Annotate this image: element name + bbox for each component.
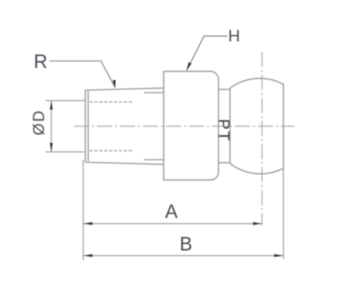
centerline horizontal axis bbox=[74, 125, 295, 127]
thread end face chamfer line bbox=[87, 91, 89, 161]
extension line left of thread bbox=[82, 160, 84, 260]
thread root dashed top line bbox=[90, 101, 134, 103]
arrowhead leader H bbox=[186, 62, 191, 71]
ball head outline bbox=[230, 78, 284, 173]
svg-text:ØD: ØD bbox=[31, 109, 48, 135]
svg-text:PT: PT bbox=[215, 119, 232, 143]
thread root dashed bottom line bbox=[90, 150, 134, 152]
dimension OD extension line top bbox=[46, 100, 86, 102]
arrowhead B right bbox=[274, 254, 283, 257]
arrowhead B left bbox=[84, 254, 93, 257]
arrowhead OD down bbox=[50, 143, 53, 152]
arrowhead A right bbox=[253, 222, 262, 225]
arrowhead A left bbox=[84, 222, 93, 225]
thread crest bottom line bbox=[85, 162, 163, 164]
centerline vertical ball axis bbox=[261, 52, 263, 225]
hex body outline bbox=[164, 71, 219, 180]
arrowhead leader R bbox=[113, 80, 116, 89]
thread runout top line bbox=[144, 92, 164, 94]
arrowhead OD up bbox=[50, 101, 53, 110]
leader line H bbox=[187, 36, 228, 70]
dimension A line bbox=[83, 223, 262, 225]
neck shoulder bottom line bbox=[219, 162, 231, 164]
svg-text:B: B bbox=[180, 234, 193, 255]
thread runout bottom line bbox=[144, 159, 164, 161]
svg-text:H: H bbox=[228, 27, 240, 45]
thread crest top line bbox=[85, 88, 163, 90]
thread end face outer line bbox=[84, 90, 86, 162]
svg-text:R: R bbox=[34, 52, 48, 73]
neck shoulder top line bbox=[219, 88, 231, 90]
dimension OD extension line bottom bbox=[46, 151, 86, 153]
leader line R bbox=[50, 61, 115, 87]
dimension B line bbox=[83, 255, 283, 257]
dimension OD line bbox=[50, 101, 52, 152]
extension line right of ball bbox=[282, 169, 284, 259]
svg-text:A: A bbox=[165, 202, 178, 223]
